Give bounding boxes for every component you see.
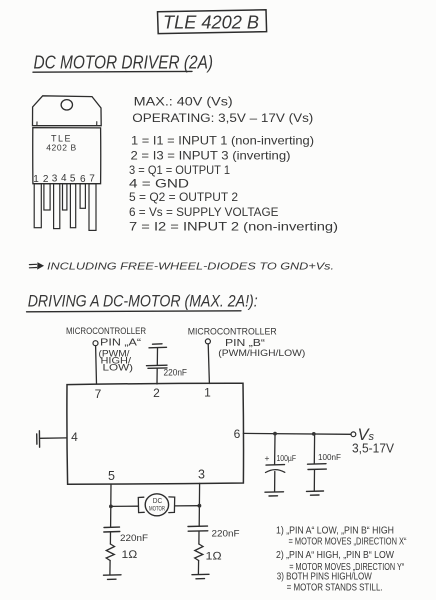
heading DRIVING A DC-MOTOR	[27, 293, 258, 312]
svg-text:MICROCONTROLLER: MICROCONTROLLER	[188, 327, 277, 338]
svg-text:LOW): LOW)	[103, 362, 134, 372]
capacitor C2 100uF electrolytic	[265, 436, 297, 492]
svg-text:2: 2	[153, 386, 160, 400]
svg-text:+: +	[265, 453, 270, 463]
svg-text:4202 B: 4202 B	[46, 143, 77, 153]
pin 7 lead	[89, 184, 96, 231]
svg-text:DRIVING A DC-MOTOR (MAX. 2A!):: DRIVING A DC-MOTOR (MAX. 2A!):	[28, 293, 258, 311]
svg-text:1Ω: 1Ω	[206, 551, 223, 563]
svg-text:(PWM/HIGH/LOW): (PWM/HIGH/LOW)	[218, 348, 305, 358]
pin 1 lead	[34, 184, 41, 228]
resistor R1 1 ohm	[106, 544, 114, 561]
package marking TLE 4202 B	[46, 134, 77, 153]
svg-text:3 = Q1 = OUTPUT 1: 3 = Q1 = OUTPUT 1	[129, 163, 230, 177]
mounting hole	[61, 100, 72, 110]
heading DC MOTOR DRIVER (2A)	[33, 53, 213, 73]
svg-text:220nF: 220nF	[164, 368, 188, 378]
svg-text:MICROCONTROLLER: MICROCONTROLLER	[66, 326, 146, 337]
svg-text:1Ω: 1Ω	[122, 549, 139, 561]
svg-text:7: 7	[89, 173, 95, 184]
ground under R1	[104, 574, 122, 576]
ground under R2	[192, 573, 209, 575]
terminal: microcontroller pin B	[205, 339, 210, 344]
svg-text:100µF: 100µF	[277, 454, 297, 463]
svg-text:2) „PIN A“ HIGH, „PIN B“ LOW: 2) „PIN A“ HIGH, „PIN B“ LOW	[276, 550, 394, 561]
ground under C3	[307, 490, 324, 492]
svg-text:5: 5	[70, 173, 76, 184]
truth-table notes	[276, 525, 407, 593]
package body	[33, 128, 101, 184]
resistor R2 1 ohm	[195, 544, 203, 561]
svg-text:OPERATING: 3,5V – 17V (Vs): OPERATING: 3,5V – 17V (Vs)	[132, 111, 313, 125]
capacitor C4 220nF (left snubber)	[104, 527, 148, 544]
svg-text:1 = I1 = INPUT 1 (non-invertin: 1 = I1 = INPUT 1 (non-inverting)	[131, 134, 314, 148]
node label Vs 3,5-17V	[352, 426, 395, 456]
wire pin 4 to ground	[40, 437, 67, 439]
ratings text	[132, 94, 313, 125]
wire pin B to IC pin 1	[208, 344, 209, 384]
svg-text:5: 5	[108, 469, 115, 483]
wire motor right	[175, 505, 200, 507]
svg-text:DC: DC	[153, 498, 163, 505]
op-amp/driver IC U1 TLE4202B box	[67, 383, 244, 484]
junction dot pin3/motor	[198, 504, 202, 508]
title box TLE 4202 B	[158, 10, 267, 34]
wire IC pin 3 down	[198, 483, 200, 526]
motor M1	[145, 494, 168, 516]
svg-text:6 = Vs = SUPPLY VOLTAGE: 6 = Vs = SUPPLY VOLTAGE	[129, 205, 279, 219]
ground under C2	[265, 491, 284, 493]
svg-text:1: 1	[204, 386, 211, 400]
junction dot at C3	[312, 432, 316, 436]
svg-text:INCLUDING FREE-WHEEL-DIODES TO: INCLUDING FREE-WHEEL-DIODES TO GND+Vs.	[47, 261, 334, 272]
svg-text:7: 7	[95, 387, 102, 401]
junction dot at C2	[273, 432, 277, 436]
svg-text:= MOTOR STANDS STILL.: = MOTOR STANDS STILL.	[287, 582, 383, 593]
wire pin A to IC pin 7	[95, 346, 98, 384]
pin 5 lead	[70, 184, 75, 228]
svg-text:6: 6	[234, 427, 241, 441]
IC package TLE4202B (TO-220-7 front view): tab	[33, 96, 102, 126]
svg-text:3: 3	[52, 174, 58, 185]
free-wheel-diodes note with arrow	[29, 261, 334, 272]
tab notch hooks	[37, 122, 97, 126]
svg-text:2 = I3 = INPUT 3 (inverting): 2 = I3 = INPUT 3 (inverting)	[131, 149, 291, 163]
motor M1 terminals	[138, 497, 144, 512]
svg-text:3: 3	[198, 468, 205, 482]
pin 3 lead	[54, 184, 60, 229]
svg-text:MOTOR: MOTOR	[149, 506, 165, 513]
svg-text:3,5-17V: 3,5-17V	[352, 442, 395, 456]
pin 2 lead	[44, 184, 50, 210]
pin 4 lead	[63, 184, 67, 210]
svg-text:= MOTOR MOVES „DIRECTION X“: = MOTOR MOVES „DIRECTION X“	[289, 536, 407, 547]
wire motor left	[111, 505, 138, 507]
terminal: microcontroller pin A	[93, 341, 98, 346]
svg-text:MAX.: 40V (Vs): MAX.: 40V (Vs)	[134, 94, 233, 108]
wire pin 6 to Vs terminal	[243, 432, 351, 435]
junction dot pin5/motor	[109, 505, 113, 509]
svg-text:1) „PIN A“ LOW, „PIN B“ HIGH: 1) „PIN A“ LOW, „PIN B“ HIGH	[276, 525, 394, 536]
svg-text:100nF: 100nF	[318, 453, 341, 462]
svg-text:5 = Q2 = OUTPUT 2: 5 = Q2 = OUTPUT 2	[129, 190, 238, 204]
svg-text:TLE 4202 B: TLE 4202 B	[163, 12, 259, 32]
capacitor C5 220nF (right snubber)	[188, 526, 240, 544]
wire R2 to ground	[197, 561, 199, 575]
capacitor C1 220nF at pin 2	[147, 344, 188, 384]
svg-text:220nF: 220nF	[120, 533, 148, 544]
svg-text:4 = GND: 4 = GND	[129, 177, 189, 191]
svg-text:4: 4	[71, 430, 78, 444]
wire R1 to ground	[109, 561, 111, 575]
svg-text:DC MOTOR DRIVER (2A): DC MOTOR DRIVER (2A)	[34, 53, 214, 73]
wire IC pin 5 down	[110, 484, 112, 527]
svg-text:220nF: 220nF	[212, 529, 240, 540]
svg-text:3) BOTH PINS HIGH/LOW: 3) BOTH PINS HIGH/LOW	[277, 572, 372, 583]
pin function list	[129, 134, 338, 234]
terminal Vs	[351, 432, 356, 437]
svg-text:PIN „A“: PIN „A“	[100, 337, 141, 348]
capacitor C3 100nF	[308, 436, 342, 491]
ground at pin 4 (rotated)	[38, 431, 40, 447]
svg-text:4: 4	[61, 173, 67, 184]
pin 6 lead	[80, 184, 85, 209]
svg-text:7 = I2 = INPUT 2 (non-invertin: 7 = I2 = INPUT 2 (non-inverting)	[129, 220, 338, 234]
